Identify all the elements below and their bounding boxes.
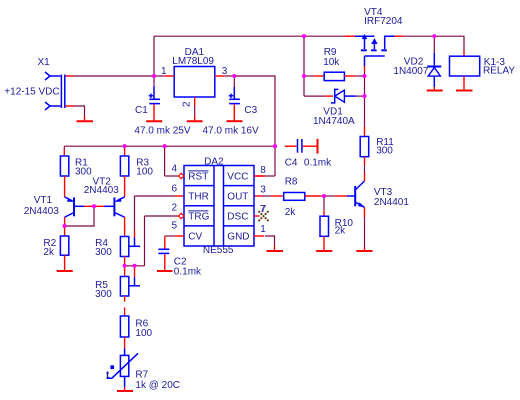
svg-text:1: 1 (161, 66, 167, 77)
svg-text:C1: C1 (135, 105, 148, 116)
svg-text:300: 300 (95, 247, 112, 258)
svg-text:8: 8 (260, 165, 266, 176)
svg-text:THR: THR (188, 192, 209, 203)
svg-text:0.1mk: 0.1mk (304, 158, 332, 169)
svg-text:OUT: OUT (227, 192, 248, 203)
svg-text:1: 1 (260, 224, 266, 235)
svg-text:2: 2 (182, 101, 193, 107)
svg-text:IRF7204: IRF7204 (364, 16, 403, 27)
svg-text:4: 4 (171, 163, 177, 174)
svg-text:TRG: TRG (188, 212, 209, 223)
svg-text:100: 100 (136, 166, 153, 177)
svg-text:10k: 10k (323, 57, 340, 68)
svg-text:47.0 mk 25V: 47.0 mk 25V (134, 125, 190, 136)
svg-text:R8: R8 (285, 177, 298, 188)
svg-text:300: 300 (95, 289, 112, 300)
svg-text:VCC: VCC (227, 172, 248, 183)
svg-text:DA2: DA2 (204, 156, 224, 167)
svg-text:0.1mk: 0.1mk (174, 267, 202, 278)
svg-text:C4: C4 (285, 158, 298, 169)
svg-text:VT1: VT1 (34, 195, 53, 206)
svg-text:CV: CV (188, 232, 202, 243)
svg-text:2N4403: 2N4403 (84, 185, 119, 196)
svg-text:GND: GND (227, 232, 249, 243)
svg-text:2k: 2k (285, 207, 297, 218)
svg-text:1N4740A: 1N4740A (313, 116, 355, 127)
svg-text:300: 300 (376, 146, 393, 157)
svg-text:2k: 2k (43, 247, 55, 258)
svg-text:DSC: DSC (227, 212, 248, 223)
svg-text:RST: RST (188, 172, 208, 183)
svg-text:2: 2 (171, 202, 177, 213)
svg-text:X1: X1 (38, 57, 51, 68)
svg-text:1N4007: 1N4007 (393, 66, 428, 77)
svg-text:1k @ 20C: 1k @ 20C (135, 380, 180, 391)
svg-text:2N4401: 2N4401 (374, 197, 409, 208)
svg-text:2N4403: 2N4403 (24, 206, 59, 217)
svg-text:100: 100 (135, 328, 152, 339)
svg-text:6: 6 (171, 183, 177, 194)
svg-text:5: 5 (171, 220, 177, 231)
svg-text:R7: R7 (135, 370, 148, 381)
svg-text:RELAY: RELAY (483, 65, 515, 76)
svg-text:2k: 2k (335, 226, 347, 237)
svg-text:NE555: NE555 (203, 245, 234, 256)
svg-text:C3: C3 (244, 105, 257, 116)
svg-text:300: 300 (75, 166, 92, 177)
svg-text:47.0 mk 16V: 47.0 mk 16V (203, 125, 259, 136)
svg-text:3: 3 (260, 185, 266, 196)
svg-text:3: 3 (222, 66, 228, 77)
svg-text:7: 7 (261, 204, 267, 215)
svg-text:+12-15 VDC: +12-15 VDC (4, 87, 59, 98)
svg-text:LM78L09: LM78L09 (172, 56, 214, 67)
